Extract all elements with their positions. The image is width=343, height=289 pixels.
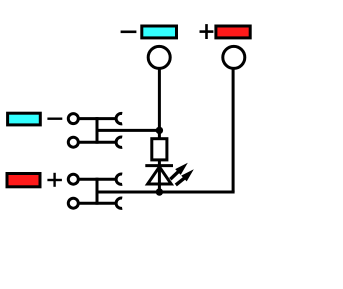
LED D1 triangle [148,167,172,184]
wire: resistor through LED to node B [158,159,161,194]
wire: negative terminal down to node A [158,69,161,140]
node B junction dot [156,188,163,195]
plus sign (left positive input) [47,173,62,187]
wire: negative upper pin to clip [79,117,117,120]
bridge bar (positive group) [96,178,99,205]
cyan indicator box (top negative) [142,26,177,38]
resistor R1 [152,139,167,160]
socket pin circle (negative upper) [68,114,78,124]
clip contact (negative lower) [116,137,122,147]
wire: negative lower pin to clip [79,141,117,144]
wire: positive upper pin to clip [79,178,117,181]
clip contact (positive upper) [116,174,122,184]
socket pin circle (positive lower) [68,198,78,208]
red indicator box (top positive) [216,26,250,38]
minus sign (top negative terminal label) [121,30,137,33]
wire: left socket group to node A [97,129,159,132]
cyan label box (left negative input) [8,113,41,125]
LED light arrow 1 [170,163,188,179]
LED D1 cathode bar [145,164,173,167]
clip contact (positive lower) [116,198,122,208]
node A junction dot [156,127,163,134]
minus sign (left negative input) [47,117,62,119]
terminal circle (positive) [223,46,245,68]
clip contact (negative upper) [116,113,122,123]
wire: positive lower pin to clip [79,202,117,205]
socket pin circle (negative lower) [68,137,78,147]
LED light arrow 2 [176,169,194,185]
terminal circle (negative) [148,46,170,68]
plus sign (top positive terminal label) [200,24,214,39]
red label box (left positive input) [7,174,40,187]
socket pin circle (positive upper) [68,174,78,184]
bridge bar (negative group) [96,117,99,144]
wire: bottom bus from positive socket group to positive drop [97,191,235,194]
wire: positive terminal drop [232,69,235,192]
